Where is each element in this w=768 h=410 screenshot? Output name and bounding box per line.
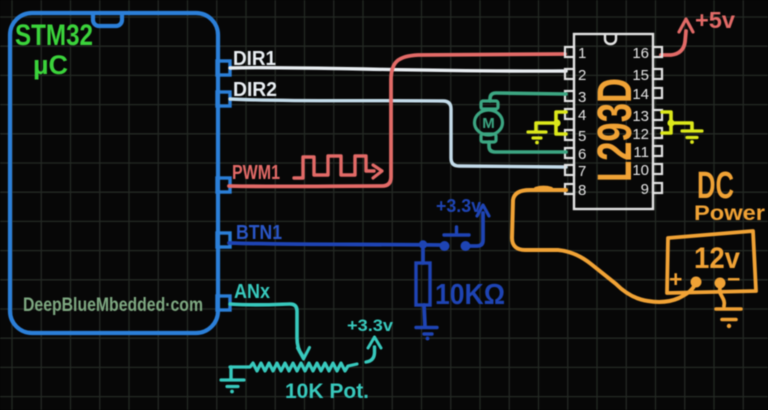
motor bottom terminal <box>481 134 496 142</box>
wire battery - to ground <box>720 288 725 306</box>
+3.3v arrow head (pot) <box>368 337 381 348</box>
svg-text:8: 8 <box>578 182 586 199</box>
wire L293D pins 4-5 tie <box>536 112 566 134</box>
pin DIR1 of STM32 <box>217 61 230 75</box>
push button S1 <box>440 227 470 251</box>
PWM square-wave symbol <box>294 156 374 178</box>
wire button to +3.3v <box>470 213 483 246</box>
svg-text:PWM1: PWM1 <box>232 162 280 184</box>
wire DIR2 to L293D pin 7 <box>230 99 566 167</box>
svg-text:4: 4 <box>578 107 586 124</box>
svg-text:6: 6 <box>578 146 586 163</box>
+3.3v arrow head (button) <box>477 205 489 216</box>
svg-text:DeepBlueMbedded·com: DeepBlueMbedded·com <box>23 295 203 316</box>
L293D pin 5 <box>565 130 574 140</box>
wire PWM1 to L293D pin 1 <box>229 54 565 186</box>
L293D pin 6 <box>565 148 574 158</box>
junction dot pins 4-5 <box>553 119 560 126</box>
pin DIR2 of STM32 <box>217 92 230 106</box>
svg-text:2: 2 <box>578 67 586 84</box>
L293D pin 2 <box>565 69 574 79</box>
svg-text:ANx: ANx <box>234 281 270 303</box>
PWM arrow head <box>373 165 382 178</box>
wire junction to resistor R1 <box>421 249 425 263</box>
L293D pin 8 <box>565 184 574 194</box>
wire resistor to ground <box>424 305 425 327</box>
svg-text:µC: µC <box>33 50 68 80</box>
svg-text:M: M <box>482 115 495 132</box>
wire motor - terminal to L293D pin 6 <box>489 142 566 152</box>
potentiometer RV1 10K element <box>230 363 357 371</box>
L293D pin 12 <box>653 128 662 138</box>
junction node BTN1 <box>419 240 427 248</box>
L293D pin 3 <box>565 91 574 101</box>
pin BTN1 of STM32 <box>217 233 230 247</box>
L293D pin 10 <box>653 164 662 174</box>
L293D pin 9 <box>653 183 662 193</box>
resistor R1 10K body <box>416 263 430 305</box>
ground right of L293D <box>682 131 702 138</box>
svg-text:7: 7 <box>578 163 586 180</box>
L293D pin 14 <box>653 88 662 98</box>
svg-text:+: + <box>669 266 682 292</box>
L293D pin 1 <box>565 47 574 57</box>
wire L293D pin 8 to battery + <box>512 190 695 302</box>
L293D pin 13 <box>653 110 662 120</box>
wire L293D pin 3 to motor + terminal <box>490 93 566 101</box>
L293D pin 11 <box>653 146 662 156</box>
IC U2 L293D body <box>574 34 653 209</box>
svg-text:1: 1 <box>578 45 586 62</box>
ground left of L293D <box>528 132 546 138</box>
wire overdraw blob near L293D pin 8 <box>536 188 551 189</box>
junction dot pins 13-12 <box>667 119 674 126</box>
svg-text:STM32: STM32 <box>15 19 93 52</box>
pin PWM1 of STM32 <box>217 178 230 192</box>
wire BTN1 to button <box>229 243 441 245</box>
svg-text:−: − <box>727 266 740 292</box>
wire L293D pins 13-12 tie <box>662 112 692 133</box>
L293D pin 15 <box>653 69 662 79</box>
svg-text:3: 3 <box>578 89 586 106</box>
motor top terminal <box>481 101 498 109</box>
battery terminal - dot <box>715 278 726 289</box>
svg-text:Power: Power <box>694 202 765 225</box>
svg-text:5: 5 <box>578 128 586 145</box>
wiper arrow head <box>298 348 310 360</box>
ground below resistor R1 <box>416 328 437 335</box>
wire DIR1 to L293D pin 2 <box>230 68 566 72</box>
svg-text:+3.3v: +3.3v <box>347 316 394 335</box>
L293D pin 4 <box>565 109 574 119</box>
svg-text:10K Pot.: 10K Pot. <box>285 380 369 403</box>
svg-text:DIR2: DIR2 <box>233 79 277 101</box>
wire pot right to +3.3v <box>366 347 375 362</box>
svg-text:BTN1: BTN1 <box>236 222 282 244</box>
svg-text:16: 16 <box>632 45 649 62</box>
svg-text:9: 9 <box>641 181 649 198</box>
battery terminal + dot <box>691 277 702 288</box>
motor M1 body <box>475 110 503 135</box>
+5v arrow head <box>679 19 693 32</box>
battery BT1 12v box <box>667 231 756 293</box>
pin ANx of STM32 <box>217 296 230 310</box>
svg-text:10KΩ: 10KΩ <box>435 279 505 311</box>
svg-text:+3.3v: +3.3v <box>436 196 481 216</box>
L293D pin 16 <box>653 47 662 57</box>
ground left of potentiometer <box>221 380 244 387</box>
ground below battery <box>716 309 741 320</box>
wire ANx to potentiometer wiper <box>230 304 302 355</box>
svg-text:L293D: L293D <box>589 78 642 182</box>
microcontroller U1 STM32 body <box>10 13 218 333</box>
svg-text:+5v: +5v <box>695 7 735 33</box>
svg-text:DC: DC <box>697 165 734 207</box>
wire pot left to ground <box>229 367 232 379</box>
L293D pin 7 <box>565 165 574 175</box>
wire L293D pin 16 to +5v <box>661 31 686 55</box>
